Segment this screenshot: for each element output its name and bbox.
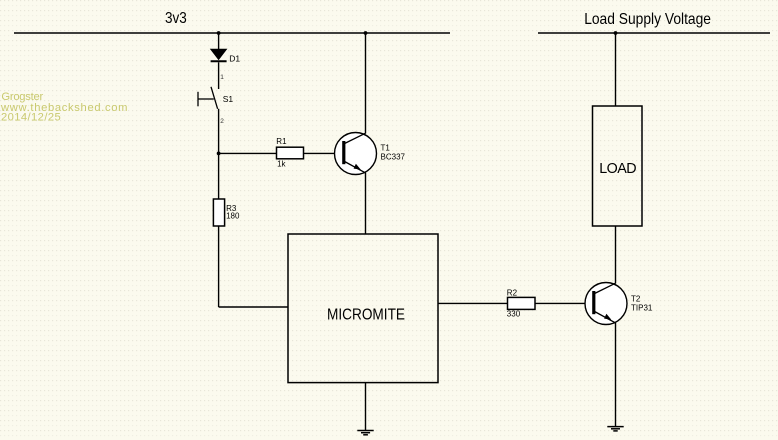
svg-text:1k: 1k (277, 160, 286, 169)
node junction on 3v3 rail above D1 (217, 31, 221, 35)
svg-text:1: 1 (220, 74, 224, 81)
switch S1 (198, 87, 233, 109)
wire rail to LOAD top (615, 33, 617, 106)
svg-text:TIP31: TIP31 (631, 304, 653, 313)
svg-text:T2: T2 (631, 294, 641, 303)
ground below T2 (607, 427, 623, 431)
svg-text:330: 330 (507, 309, 521, 318)
wire rail to D1 anode (218, 33, 220, 49)
svg-text:3v3: 3v3 (165, 10, 187, 27)
svg-text:2014/12/25: 2014/12/25 (1, 112, 61, 124)
diode D1 (211, 49, 241, 63)
power rail 3v3 (14, 10, 450, 33)
svg-text:T1: T1 (381, 144, 391, 153)
MICROMITE block U1 (288, 234, 438, 383)
svg-text:2: 2 (220, 118, 224, 125)
svg-text:S1: S1 (223, 94, 234, 104)
node junction on load rail above LOAD (614, 31, 618, 35)
svg-text:180: 180 (226, 211, 240, 220)
transistor T2 (585, 283, 653, 325)
resistor R2 (507, 288, 535, 318)
node junction on 3v3 rail above T1 collector (364, 31, 368, 35)
wire T2 emitter to ground (615, 323, 617, 427)
svg-text:D1: D1 (229, 54, 240, 64)
wire R3 bottom to MICROMITE left (219, 226, 288, 307)
wire MICROMITE bottom to ground (365, 383, 367, 431)
wire R1 to T1 base (304, 152, 344, 154)
wire LOAD bottom to T2 collector (615, 226, 617, 284)
resistor R1 (276, 137, 303, 169)
svg-text:LOAD: LOAD (599, 161, 636, 177)
node junction at R1/R3/S1 tee (217, 152, 221, 156)
LOAD block (593, 106, 643, 226)
power rail Load Supply Voltage (538, 11, 770, 33)
wire tee to R1 left (219, 152, 277, 154)
watermark text (0, 91, 128, 124)
svg-text:R2: R2 (507, 288, 518, 297)
wire S1 to R3 top with base tee (218, 109, 220, 199)
wire R2 to T2 base (535, 302, 594, 304)
wire T1 emitter to MICROMITE top (365, 173, 367, 235)
svg-text:MICROMITE: MICROMITE (327, 307, 405, 324)
svg-text:R1: R1 (276, 137, 287, 146)
wire D1 cathode to S1 (218, 62, 220, 89)
transistor T1 (335, 133, 406, 175)
ground below MICROMITE (357, 431, 373, 435)
wire T1 collector to 3v3 rail (365, 33, 367, 134)
wire MICROMITE right to R2 (438, 302, 508, 304)
svg-text:Load Supply Voltage: Load Supply Voltage (584, 11, 711, 28)
resistor R3 (213, 199, 240, 226)
svg-text:BC337: BC337 (381, 152, 406, 161)
